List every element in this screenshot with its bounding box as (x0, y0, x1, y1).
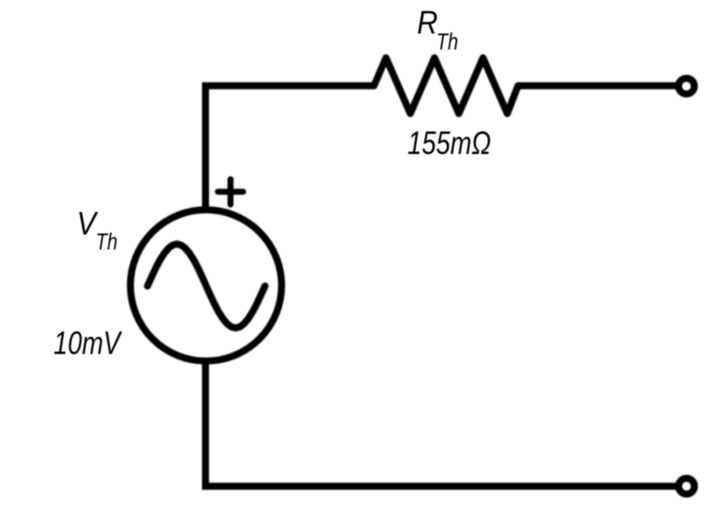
terminal node: top-right output (679, 78, 695, 94)
wire: source bottom to bottom terminal (206, 360, 681, 486)
wire: resistor to top terminal (518, 82, 680, 89)
AC voltage source V_Th: circle body (130, 210, 281, 361)
svg-text:10mV: 10mV (54, 326, 123, 361)
resistor R_Th (374, 58, 518, 114)
terminal node: bottom-right output (679, 478, 695, 494)
wire: top-left corner from resistor to source top (206, 86, 375, 212)
svg-text:Th: Th (436, 29, 458, 56)
plus polarity mark of source V_Th (218, 179, 243, 204)
svg-text:Th: Th (96, 229, 118, 256)
sine wave symbol inside source V_Th (148, 244, 266, 328)
svg-text:R: R (417, 5, 438, 41)
svg-text:155mΩ: 155mΩ (408, 126, 492, 161)
